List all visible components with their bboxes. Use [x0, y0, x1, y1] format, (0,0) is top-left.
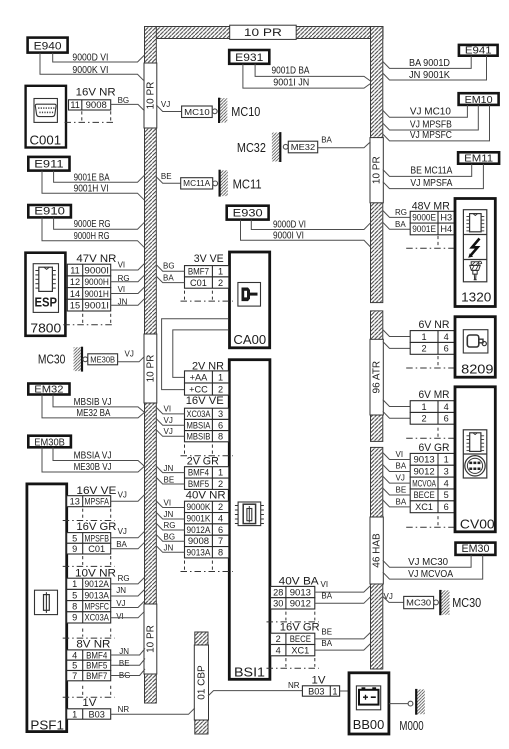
svg-text:11: 11	[70, 100, 80, 110]
svg-text:8209: 8209	[461, 361, 493, 376]
wire 9001E BA from E911 to 10 PR	[54, 171, 145, 182]
svg-text:9008: 9008	[188, 536, 209, 546]
pin table 10V NR (PSF1)	[67, 578, 111, 623]
svg-text:6: 6	[444, 414, 449, 424]
svg-text:H4: H4	[440, 224, 452, 234]
wire MPSFB VJ to 10 PR	[111, 531, 145, 538]
svg-text:3: 3	[444, 467, 449, 477]
svg-text:XC03A: XC03A	[187, 409, 212, 419]
svg-text:2V GR: 2V GR	[187, 455, 219, 467]
svg-text:4: 4	[444, 332, 449, 342]
svg-text:5: 5	[444, 490, 449, 500]
svg-text:BMF4: BMF4	[188, 468, 209, 478]
pin table 6V GR (CV00)	[410, 453, 454, 512]
dashed continuation (6V GR)	[406, 516, 458, 527]
pin table 16V VE (BSI1)	[185, 408, 229, 442]
wire 9013A JN from 10 PR to BSI1	[156, 546, 184, 553]
wire BA from 10 PR to 48V MR table	[383, 222, 410, 229]
svg-text:EM11: EM11	[464, 154, 493, 165]
svg-text:9001E BA: 9001E BA	[74, 172, 110, 183]
wire 9000K VI from E940 to 10 PR	[40, 53, 145, 81]
svg-text:EM32: EM32	[34, 385, 64, 396]
wire from 96 ATR to CV00 6V MR pin 2	[383, 411, 410, 418]
icon PSF1 fuse	[35, 590, 58, 614]
splice bar MC10	[219, 98, 227, 123]
wire B03 to BB00	[340, 690, 350, 692]
wire 9000H RG from ESP to 10 PR	[111, 275, 145, 282]
pin table BMF7/C01 (CA00)	[185, 266, 229, 289]
component 1320	[455, 199, 495, 307]
splice box ME30B	[88, 354, 118, 365]
svg-text:VI: VI	[118, 285, 126, 294]
svg-text:EM30B: EM30B	[34, 437, 65, 448]
svg-text:VI: VI	[396, 450, 404, 459]
wire harness bus 10 PR right leg	[371, 27, 383, 303]
svg-text:MC30: MC30	[38, 352, 66, 367]
svg-text:E931: E931	[235, 52, 263, 64]
svg-text:5: 5	[72, 590, 77, 600]
net label 96 ATR	[370, 339, 383, 415]
svg-text:1: 1	[218, 372, 223, 382]
icon CV00 chip	[467, 433, 485, 452]
wire CA00 pin to BSI1 +AA	[173, 330, 229, 378]
svg-text:VJ MPSFA: VJ MPSFA	[410, 178, 452, 189]
wire MBSIB VJ from EM32 to 10 PR	[53, 395, 145, 413]
svg-text:BA: BA	[116, 540, 127, 549]
wire MPSFC VJ to 10 PR	[111, 601, 145, 608]
svg-text:C01: C01	[190, 278, 207, 288]
component BB00	[349, 673, 389, 734]
wire 9012 BA from 46 HAB to CV00	[383, 465, 410, 472]
svg-text:8: 8	[218, 548, 223, 558]
svg-text:VJ: VJ	[161, 100, 170, 109]
icon ESP inner module	[33, 264, 58, 313]
svg-text:9012: 9012	[413, 467, 434, 477]
svg-text:30: 30	[273, 599, 283, 609]
connector EM32	[28, 384, 69, 396]
wire from 96 ATR to 8209 pin 2	[383, 342, 410, 349]
svg-text:1: 1	[422, 402, 427, 412]
wire from 96 ATR to CV00 6V MR pin 1	[383, 400, 410, 407]
wire BECE BE from 46 HAB to CV00	[383, 488, 410, 495]
svg-text:H3: H3	[440, 212, 452, 222]
component C001	[26, 86, 66, 148]
wire RG from 10 PR to 48V MR table	[383, 211, 410, 218]
svg-text:E910: E910	[34, 205, 65, 217]
svg-text:VJ MPSFC: VJ MPSFC	[410, 130, 452, 141]
pin table 16V GR (BSI1 bottom)	[271, 633, 315, 656]
wire VJ from 46 HAB to MC30 splice	[383, 597, 404, 603]
wire 9000I VI from E930 to 10 PR right	[241, 220, 371, 247]
wire from 96 ATR to 8209 pin 1	[383, 330, 410, 337]
svg-text:ESP: ESP	[35, 295, 58, 310]
svg-text:JN: JN	[116, 586, 126, 595]
svg-text:+AA: +AA	[190, 372, 208, 382]
net label 10 PR left upper	[144, 63, 157, 128]
pin table 40V NR (BSI1)	[185, 501, 229, 558]
icon 1320 lightning	[471, 239, 480, 256]
svg-text:9001E: 9001E	[412, 224, 436, 234]
pin table 40V BA (BSI1)	[271, 586, 315, 609]
component ESP 7800	[26, 253, 66, 336]
svg-text:VI: VI	[164, 405, 172, 414]
icon CV00 cells	[463, 430, 487, 478]
svg-text:9000D VI: 9000D VI	[273, 220, 306, 231]
svg-text:01 CBP: 01 CBP	[196, 665, 207, 700]
wire VJ MPSFC from 10 PR to EM10	[383, 105, 490, 141]
pin table ESP 47V NR	[67, 264, 110, 311]
svg-text:9000H: 9000H	[84, 277, 109, 287]
svg-text:1: 1	[332, 686, 337, 696]
pin table +AA/+CC (BSI1)	[185, 371, 229, 395]
pin table 48V MR (1320)	[410, 211, 454, 235]
svg-text:10 PR: 10 PR	[145, 82, 156, 110]
svg-text:9: 9	[72, 544, 77, 554]
dashed continuation (BSI1 40V BA)	[267, 612, 319, 622]
wire MBSIA VJ from 10 PR to BSI1	[156, 419, 184, 426]
ground node circle (M000)	[408, 701, 413, 706]
wire BMF5 BE from 10 PR to BSI1	[156, 478, 184, 485]
svg-text:BECE: BECE	[413, 490, 434, 500]
svg-text:E911: E911	[34, 159, 63, 171]
svg-text:BMF5: BMF5	[86, 661, 107, 671]
svg-text:9013A: 9013A	[187, 548, 212, 558]
svg-text:JN: JN	[164, 510, 174, 519]
svg-text:MC32: MC32	[237, 140, 266, 155]
wire 9001D BA from E931 to 10 PR right	[255, 64, 370, 81]
svg-text:M000: M000	[399, 718, 423, 733]
connector E931	[229, 50, 269, 64]
svg-text:MPSFA: MPSFA	[84, 497, 109, 507]
wire 9000D VI from E930 to 10 PR right	[251, 220, 370, 230]
svg-text:BMF7: BMF7	[86, 671, 107, 681]
pin table 6V NR (8209)	[410, 331, 454, 355]
svg-text:1: 1	[218, 267, 223, 277]
svg-text:BE MC11A: BE MC11A	[410, 166, 452, 177]
svg-text:JN: JN	[164, 543, 174, 552]
connector EM30	[456, 543, 496, 555]
icon BSI1 fuse-relay	[235, 502, 264, 526]
svg-text:VJ: VJ	[396, 474, 405, 483]
wire 9000I VI from ESP to 10 PR	[111, 264, 145, 271]
svg-text:16V NR: 16V NR	[76, 86, 116, 98]
dashed continuation (6V NR)	[406, 356, 458, 368]
svg-text:RG: RG	[118, 574, 130, 583]
svg-text:VJ: VJ	[118, 527, 127, 536]
net label 10 PR top	[230, 25, 297, 39]
svg-text:4: 4	[276, 645, 281, 655]
svg-text:VJ MPSFB: VJ MPSFB	[410, 119, 452, 130]
splice box MC10	[182, 106, 213, 118]
icon 1320 chip	[466, 214, 484, 232]
wire BMF5 BE to 10 PR	[111, 659, 145, 666]
svg-text:48V MR: 48V MR	[412, 201, 450, 213]
net label 10 PR left middle	[144, 334, 157, 403]
svg-text:4: 4	[444, 478, 449, 488]
svg-text:VI: VI	[321, 580, 329, 589]
svg-text:6: 6	[218, 525, 223, 535]
svg-text:BG: BG	[118, 96, 130, 105]
svg-text:VI: VI	[118, 260, 126, 269]
svg-text:1V: 1V	[312, 674, 326, 686]
svg-text:C001: C001	[30, 132, 62, 147]
wire 9000E RG from E910 to 10 PR	[54, 217, 145, 229]
svg-text:BECE: BECE	[290, 634, 311, 644]
wire ME32 BA to 10 PR right	[318, 142, 371, 148]
pin table 2V GR (BSI1)	[185, 467, 229, 490]
splice box MC11A	[181, 178, 213, 189]
net label 10 PR left lower	[144, 604, 157, 674]
svg-text:VJ: VJ	[116, 599, 125, 608]
svg-text:9001I JN: 9001I JN	[273, 77, 309, 88]
pin table B03|1 (BB00)	[302, 686, 339, 697]
icon CA00 key	[238, 283, 261, 307]
svg-text:E941: E941	[465, 46, 492, 57]
wire 9008 BG from C001 to 10 PR	[111, 104, 145, 111]
svg-text:9013: 9013	[290, 587, 311, 597]
svg-text:1: 1	[422, 332, 427, 342]
wire ME30B VJ to 10 PR	[118, 356, 145, 361]
wire VJ from 10 PR to MC10	[156, 105, 181, 112]
svg-text:16V GR: 16V GR	[76, 521, 116, 533]
wire MCVOA VJ from 46 HAB to CV00	[383, 476, 410, 483]
svg-text:1: 1	[72, 709, 77, 719]
svg-text:10 PR: 10 PR	[372, 156, 383, 184]
wire 9012 BA from BSI1 to 46 HAB	[315, 597, 371, 604]
wire MBSIB VJ from 10 PR to BSI1	[156, 430, 184, 437]
icon 1320 cells	[463, 210, 486, 282]
wire 9001I JN from E931 to 10 PR right	[243, 64, 371, 88]
svg-text:E930: E930	[233, 208, 263, 220]
dashed continuation (PSF1 16V VE)	[63, 509, 115, 521]
svg-text:MC11: MC11	[233, 177, 262, 192]
svg-text:VI: VI	[164, 498, 172, 507]
svg-text:XC1: XC1	[415, 502, 433, 512]
wire 9012A RG from 10 PR to BSI1	[156, 524, 184, 531]
component CV00	[455, 387, 495, 532]
svg-text:4: 4	[72, 650, 77, 660]
svg-text:MBSIA: MBSIA	[187, 420, 212, 430]
wire BMF7 BG to 10 PR	[111, 669, 145, 676]
connector E941	[459, 45, 498, 57]
svg-text:1: 1	[218, 468, 223, 478]
splice node circle (MC10)	[212, 109, 217, 114]
svg-text:BE: BE	[321, 628, 332, 637]
svg-text:VJ: VJ	[118, 490, 127, 499]
splice node circle (ME30B)	[83, 357, 88, 362]
svg-text:2: 2	[422, 344, 427, 354]
svg-text:9001K: 9001K	[187, 514, 212, 524]
wire XC03A VI to 10 PR	[111, 611, 145, 618]
svg-text:3: 3	[218, 409, 223, 419]
svg-text:NR: NR	[288, 681, 300, 690]
svg-text:16V GR: 16V GR	[280, 622, 320, 634]
svg-text:6: 6	[444, 344, 449, 354]
svg-text:BE: BE	[164, 475, 175, 484]
splice box MC30	[404, 596, 434, 608]
svg-text:CV00: CV00	[460, 516, 495, 531]
icon C001 d-sub connector	[34, 99, 57, 123]
svg-text:MBSIA VJ: MBSIA VJ	[74, 450, 112, 461]
svg-text:9000E RG: 9000E RG	[74, 219, 111, 230]
wire 9012A RG to 10 PR	[111, 577, 145, 584]
svg-text:10 PR: 10 PR	[145, 625, 156, 653]
wire harness bus segment 96 ATR	[371, 311, 383, 442]
svg-text:MPSFB: MPSFB	[84, 533, 109, 543]
wire 9001I JN from ESP to 10 PR	[111, 299, 145, 306]
net label 46 HAB	[370, 517, 383, 584]
svg-text:4: 4	[218, 514, 223, 524]
svg-text:9000K VI: 9000K VI	[72, 65, 108, 76]
svg-text:ME30B VJ: ME30B VJ	[74, 462, 112, 473]
splice bar MC32	[272, 132, 280, 162]
svg-text:7: 7	[218, 536, 223, 546]
svg-text:CA00: CA00	[233, 332, 266, 347]
svg-text:10 PR: 10 PR	[244, 27, 282, 39]
svg-text:9000D VI: 9000D VI	[72, 53, 108, 64]
wire CA00 pin to BSI1 +CC	[162, 319, 229, 390]
wire JN 9001K from 10 PR to E941	[383, 56, 487, 80]
connector E910	[28, 205, 71, 217]
svg-text:BG: BG	[164, 532, 176, 541]
wire harness bus segment 01 CBP	[195, 632, 208, 734]
pin table 13|MPSFA (PSF1)	[67, 496, 111, 507]
dashed continuation (6V MR)	[406, 428, 458, 439]
svg-text:1: 1	[444, 455, 449, 465]
connector E940	[28, 38, 68, 53]
svg-text:2: 2	[218, 384, 223, 394]
svg-text:12: 12	[70, 277, 80, 287]
icon ESP chip	[35, 267, 55, 291]
splice bar MC30 right	[440, 590, 449, 615]
dashed continuation (CA00 table)	[181, 291, 233, 302]
svg-text:MC11A: MC11A	[183, 179, 211, 188]
svg-text:BB00: BB00	[353, 717, 385, 732]
wire MPSFA VJ to 10 PR	[111, 495, 145, 502]
svg-text:40V BA: 40V BA	[279, 575, 319, 587]
connector E911	[28, 157, 69, 171]
svg-text:5: 5	[72, 661, 77, 671]
wire 9013 VI from 46 HAB to CV00	[383, 453, 410, 460]
wire VJ MCVOA from 46 HAB to EM30	[383, 555, 483, 579]
icon CV00 round connector	[463, 454, 487, 476]
svg-text:6V MR: 6V MR	[419, 389, 450, 401]
svg-text:BE: BE	[396, 485, 407, 494]
svg-text:9012: 9012	[290, 599, 311, 609]
svg-text:3V VE: 3V VE	[194, 253, 224, 265]
svg-text:9008: 9008	[86, 100, 107, 110]
wire C01 BA to 10 PR	[111, 542, 145, 549]
wire BMF4 JN to 10 PR	[111, 648, 145, 655]
svg-text:ME30B: ME30B	[90, 354, 115, 364]
ground M000 bar	[416, 689, 425, 715]
connector EM11	[458, 152, 499, 164]
svg-text:VJ MC10: VJ MC10	[410, 107, 452, 118]
svg-text:JN 9001K: JN 9001K	[409, 70, 450, 81]
svg-text:13: 13	[70, 497, 80, 507]
svg-text:2: 2	[218, 502, 223, 512]
splice bar MC30 left	[74, 347, 82, 372]
svg-text:7800: 7800	[30, 320, 61, 335]
wire 9000H RG from E910 to 10 PR	[42, 217, 145, 247]
svg-text:E940: E940	[34, 41, 62, 53]
svg-text:9000E: 9000E	[412, 212, 436, 222]
pin table 11|9008 (C001)	[69, 100, 111, 110]
svg-text:PSF1: PSF1	[30, 718, 64, 733]
svg-text:9001H: 9001H	[84, 289, 109, 299]
svg-text:47V NR: 47V NR	[76, 253, 116, 265]
svg-text:MBSIB: MBSIB	[187, 432, 211, 442]
svg-text:MC10: MC10	[184, 107, 210, 117]
svg-text:6: 6	[218, 420, 223, 430]
svg-text:VJ: VJ	[384, 592, 393, 601]
svg-text:BMF7: BMF7	[188, 267, 209, 277]
svg-text:MBSIB VJ: MBSIB VJ	[74, 397, 112, 408]
connector E930	[227, 206, 269, 220]
svg-text:VJ MCVOA: VJ MCVOA	[408, 569, 453, 580]
dashed continuation (C001 table)	[65, 111, 115, 122]
svg-text:MCVOA: MCVOA	[412, 478, 436, 488]
svg-text:ME32 BA: ME32 BA	[76, 408, 110, 419]
svg-text:BMF4: BMF4	[86, 650, 107, 660]
dashed continuation (ESP table)	[63, 314, 114, 325]
svg-text:MC30: MC30	[406, 598, 431, 608]
wire ME30B VJ from EM30B to 10 PR	[42, 447, 145, 472]
wire harness bus 10 PR top band	[145, 27, 384, 39]
component CA00	[230, 252, 270, 348]
svg-text:NR: NR	[118, 705, 130, 714]
svg-text:9000K: 9000K	[187, 502, 212, 512]
component 8209	[455, 317, 495, 378]
wire C01 BA from 10 PR to CA00	[156, 276, 184, 282]
svg-text:2: 2	[422, 414, 427, 424]
svg-text:9000I VI: 9000I VI	[273, 231, 304, 242]
wire VJ MPSFB from 10 PR to EM10	[383, 105, 479, 130]
dashed continuation (PSF1 10V NR)	[63, 629, 115, 639]
svg-text:BSI1: BSI1	[234, 665, 265, 680]
wire VJ MPSFA from 10 PR to EM11	[383, 164, 484, 189]
svg-text:46 HAB: 46 HAB	[372, 533, 383, 568]
svg-text:BA: BA	[321, 591, 332, 600]
svg-text:+CC: +CC	[189, 384, 208, 394]
svg-text:BA: BA	[395, 220, 406, 229]
svg-text:MC10: MC10	[231, 104, 260, 119]
svg-text:RG: RG	[164, 521, 176, 530]
svg-text:VJ: VJ	[164, 427, 173, 436]
svg-text:BA: BA	[396, 462, 407, 471]
wire 9013A JN to 10 PR	[111, 590, 145, 597]
svg-text:XC1: XC1	[291, 645, 309, 655]
splice node circle (MC11A)	[213, 181, 218, 186]
svg-text:2: 2	[276, 634, 281, 644]
svg-text:40V NR: 40V NR	[186, 489, 226, 501]
wire BA 9001D from 10 PR to E941	[383, 56, 471, 69]
svg-text:9012A: 9012A	[84, 579, 109, 589]
svg-text:28: 28	[273, 587, 283, 597]
svg-text:VJ: VJ	[164, 416, 173, 425]
svg-text:B03: B03	[89, 709, 105, 719]
pin table 6V MR (CV00)	[410, 401, 454, 425]
svg-text:9000I: 9000I	[84, 265, 109, 275]
net label 10 PR right	[370, 138, 383, 203]
svg-text:BE: BE	[161, 172, 172, 181]
wire 9001K JN from 10 PR to BSI1	[156, 513, 184, 520]
wire BE from 10 PR to MC11A	[156, 177, 180, 183]
wire BMF4 JN from 10 PR to BSI1	[156, 466, 184, 473]
splice bar MC11	[220, 170, 228, 197]
wire harness bus 10 PR left leg	[145, 27, 157, 704]
svg-text:BMF5: BMF5	[188, 479, 209, 489]
